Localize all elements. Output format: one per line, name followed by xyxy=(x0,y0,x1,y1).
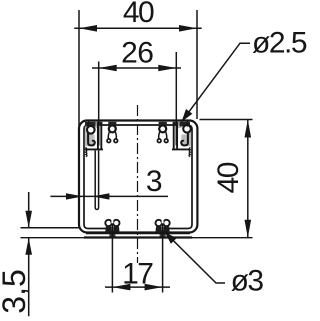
dim 3.5 dimension line lower segment xyxy=(28,238,30,317)
dim 17 arrow left xyxy=(112,284,130,291)
dim 17 extension line right xyxy=(162,224,164,293)
top wall fusion dark zones xyxy=(85,122,190,127)
dim 26 extension line right xyxy=(175,52,177,146)
center line xyxy=(137,105,139,263)
svg-text:40: 40 xyxy=(123,0,154,29)
dim 40 right dimension line xyxy=(247,120,249,238)
inner bottom ledge right xyxy=(167,225,192,229)
top-right hook screw channel xyxy=(181,122,191,146)
left wall rib channel xyxy=(95,151,98,210)
dim 17 extension line left xyxy=(111,224,113,293)
bottom-right screw channel xyxy=(156,218,170,232)
dim 40 top arrow right xyxy=(179,25,197,32)
top-right omega screw channel xyxy=(157,125,168,142)
leader 2.5 arrowhead xyxy=(182,109,193,122)
dim 40 right extension line top xyxy=(200,119,253,121)
dim 26 dimension line xyxy=(92,67,181,69)
right wall spring clip xyxy=(189,148,191,157)
profile inner contour (left wall, top ledge, right wall) xyxy=(84,125,192,225)
dim 40 right arrow bottom xyxy=(245,220,252,238)
svg-text:3,5: 3,5 xyxy=(0,269,32,313)
bottom wall inner thick line xyxy=(86,232,190,234)
svg-text:ø2.5: ø2.5 xyxy=(252,27,307,60)
bottom-right screw channel drill opening xyxy=(160,233,166,238)
leader 3 arrowhead xyxy=(165,232,177,244)
dim 3 arrow left (outside) xyxy=(66,193,83,199)
dim 40 top extension line right xyxy=(196,10,198,119)
svg-text:3: 3 xyxy=(146,165,162,198)
dim 3.5 arrow lower (outside, pointing up) xyxy=(25,238,32,255)
grey shading top-right hook xyxy=(181,127,191,147)
dim 40 top arrow left xyxy=(79,25,97,32)
bottom-left screw channel drill opening xyxy=(109,233,115,238)
top-right lid slot lines xyxy=(172,123,190,149)
leader line diameter 2.5 xyxy=(182,43,251,122)
dim 40 right arrow top xyxy=(245,120,252,138)
dim 3.5 extension line upper xyxy=(21,227,80,229)
dim 3.5 dimension line upper segment xyxy=(28,192,30,228)
bottom-left screw channel xyxy=(105,218,119,232)
top-left hook screw channel xyxy=(87,122,95,146)
svg-text:40: 40 xyxy=(212,162,245,193)
dim 26 arrow right xyxy=(158,65,176,72)
left wall spring clip xyxy=(85,148,87,157)
dim 26 extension line left xyxy=(98,62,100,146)
top-left omega screw channel xyxy=(107,125,118,142)
arrowheads xyxy=(25,25,251,290)
svg-text:17: 17 xyxy=(122,257,153,290)
profile outer contour xyxy=(79,121,197,233)
inner bottom ledge left xyxy=(84,225,108,229)
leader line diameter 3 xyxy=(165,232,226,283)
dim 26 arrow left xyxy=(99,65,117,72)
dim 17 arrow right xyxy=(145,284,163,291)
top-left lid slot lines xyxy=(85,123,103,149)
dim 40 top extension line left xyxy=(78,10,80,127)
dim 40 top dimension line xyxy=(74,27,201,29)
svg-text:ø3: ø3 xyxy=(231,265,264,298)
svg-text:26: 26 xyxy=(121,37,153,70)
grey shading top-left hook xyxy=(85,127,95,147)
dim 17 dimension line xyxy=(105,286,170,288)
bottom feet thick segment xyxy=(84,236,192,238)
dim 3.5 arrow upper (outside, pointing down) xyxy=(25,211,32,228)
bottom feet line / shared extension line xyxy=(21,237,253,239)
dim 3 dimension line xyxy=(50,195,168,197)
dim 3 arrow right (outside) xyxy=(92,193,109,199)
